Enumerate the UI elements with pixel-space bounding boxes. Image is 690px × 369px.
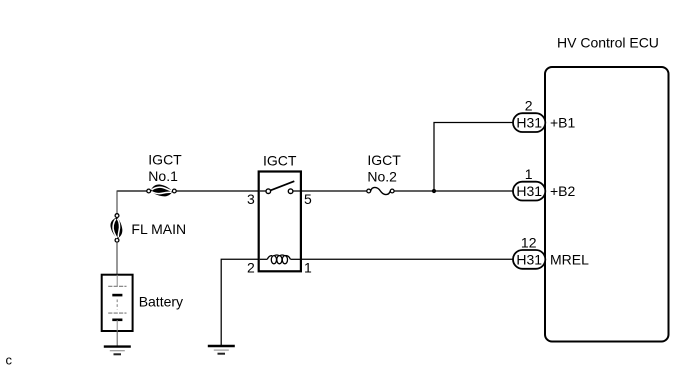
label: IGCT No.1 — [148, 151, 182, 184]
svg-text:1: 1 — [525, 166, 533, 182]
svg-text:HV Control ECU: HV Control ECU — [557, 35, 659, 51]
label: Battery — [139, 293, 183, 309]
wire: relay pin 2 to ground drop — [221, 259, 259, 345]
relay contact: pin 5 circle — [288, 189, 293, 194]
svg-text:IGCT: IGCT — [263, 152, 297, 168]
wire: relay internal pin5 stub — [293, 190, 300, 192]
svg-text:FL MAIN: FL MAIN — [131, 221, 186, 237]
svg-text:Battery: Battery — [139, 293, 183, 309]
svg-text:2: 2 — [525, 98, 533, 114]
svg-text:H31: H31 — [516, 183, 542, 199]
svg-text:No.1: No.1 — [148, 168, 178, 184]
svg-text:IGCT: IGCT — [367, 152, 401, 168]
wire: relay pin 5 to fuse IGCT No.2 — [301, 190, 367, 192]
pin label 3 — [247, 191, 255, 207]
ground: relay coil ground — [208, 346, 235, 354]
svg-text:MREL: MREL — [550, 251, 589, 267]
svg-text:c: c — [6, 353, 13, 368]
fuse IGCT No.2 — [367, 187, 394, 194]
wire: junction up and right to +B1 pin — [434, 123, 513, 192]
ground: battery ground — [104, 347, 131, 355]
connector H31 pin 1 (+B2) — [513, 166, 576, 201]
svg-text:5: 5 — [304, 191, 312, 207]
connector H31 pin 12 (MREL) — [513, 234, 589, 268]
ECU box U1: HV Control ECU — [545, 35, 669, 342]
pin label 1 — [304, 259, 312, 275]
wire: fuse No.2 to +B2 pin — [394, 190, 513, 192]
wire: corner down to FL MAIN — [116, 190, 118, 213]
connector H31 pin 2 (+B1) — [513, 98, 576, 133]
pin label 5 — [304, 191, 312, 207]
pin label 2 — [247, 259, 255, 275]
battery BT1 — [102, 275, 133, 331]
wire: relay pin 1 to MREL pin — [301, 258, 513, 260]
label: FL MAIN — [131, 221, 186, 237]
figure letter c — [6, 353, 13, 368]
svg-text:+B1: +B1 — [550, 115, 576, 131]
svg-text:2: 2 — [247, 259, 255, 275]
relay coil L1 — [260, 255, 300, 264]
svg-text:IGCT: IGCT — [148, 151, 182, 167]
wire: FL MAIN to battery — [116, 242, 118, 275]
svg-text:H31: H31 — [516, 115, 542, 131]
svg-text:3: 3 — [247, 191, 255, 207]
junction node — [432, 189, 436, 193]
label: IGCT No.2 — [367, 152, 401, 185]
wire: main horizontal left segment (corner to fuse IGCT No.1) — [117, 190, 147, 192]
fuse FL MAIN (fusible link, vertical) — [110, 214, 122, 242]
svg-text:12: 12 — [521, 234, 537, 250]
wire: relay internal pin3 stub — [260, 190, 266, 192]
relay switch arm — [271, 181, 295, 190]
wire: battery to ground — [116, 331, 118, 346]
svg-text:No.2: No.2 — [367, 168, 397, 184]
svg-text:1: 1 — [304, 259, 312, 275]
relay contact: pin 3 circle — [266, 189, 271, 194]
fuse IGCT No.1 (fusible link) — [147, 184, 176, 196]
wire: fuse No.1 to relay box — [176, 190, 259, 192]
relay K1: IGCT relay box — [259, 152, 301, 271]
svg-text:+B2: +B2 — [550, 183, 576, 199]
svg-text:H31: H31 — [516, 251, 542, 267]
